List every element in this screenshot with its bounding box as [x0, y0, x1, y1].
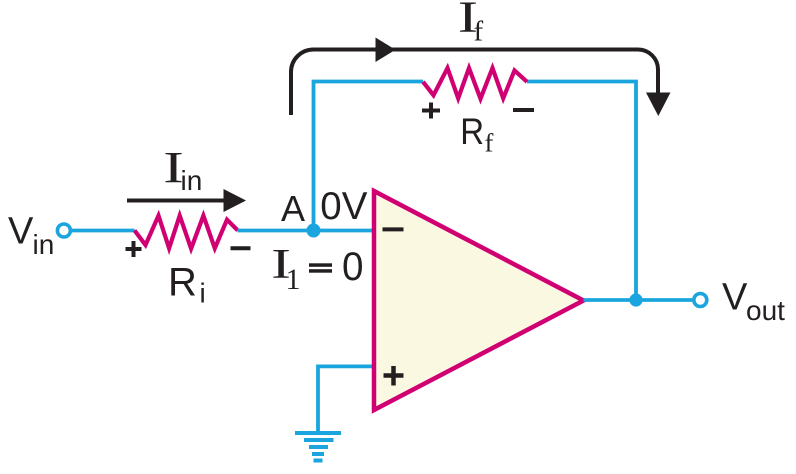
node A dot — [307, 224, 321, 238]
wire: plus input to ground — [318, 366, 374, 433]
minus sign at Rf — [513, 108, 534, 112]
svg-text:V: V — [722, 277, 748, 319]
arrow Iin — [127, 199, 228, 203]
minus sign at Ri — [231, 246, 251, 250]
svg-text:out: out — [746, 295, 785, 326]
svg-text:i: i — [200, 278, 206, 309]
output junction dot — [629, 293, 642, 306]
svg-text:f: f — [485, 128, 494, 158]
wire: feedback top left segment — [314, 82, 424, 231]
output terminal Vout — [694, 294, 707, 307]
label Iin — [163, 143, 184, 192]
minus sign inside op-amp — [383, 227, 404, 231]
svg-text:A: A — [281, 188, 305, 229]
arrowhead down on If arc — [646, 93, 671, 117]
svg-text:1: 1 — [286, 263, 301, 296]
plus sign inside op-amp — [384, 366, 404, 386]
plus sign at Rf — [422, 103, 440, 119]
ground — [295, 433, 341, 461]
feedback current arc If (black) — [291, 50, 658, 116]
wire: feedback top right segment — [527, 82, 636, 301]
wire: output — [584, 298, 693, 302]
label Rf — [460, 111, 484, 152]
label I1 = 0 — [271, 241, 291, 288]
plus sign at Ri — [126, 241, 142, 257]
wire: Ri to op-amp minus input — [238, 229, 375, 233]
wire: input to Ri — [72, 229, 135, 233]
svg-text:in: in — [181, 165, 203, 196]
arrowhead right on If arc — [376, 38, 396, 63]
svg-text:R: R — [168, 260, 197, 304]
resistor Rf zigzag — [423, 68, 527, 99]
input terminal Vin — [57, 224, 70, 237]
svg-text:in: in — [33, 229, 55, 260]
svg-text:0: 0 — [342, 245, 364, 289]
op-amp U1 triangle — [374, 191, 584, 410]
svg-text:R: R — [460, 111, 484, 152]
svg-text:V: V — [8, 211, 34, 253]
svg-text:0V: 0V — [320, 185, 367, 228]
resistor Ri zigzag — [135, 216, 238, 249]
svg-text:f: f — [474, 16, 484, 48]
label If — [458, 0, 478, 41]
